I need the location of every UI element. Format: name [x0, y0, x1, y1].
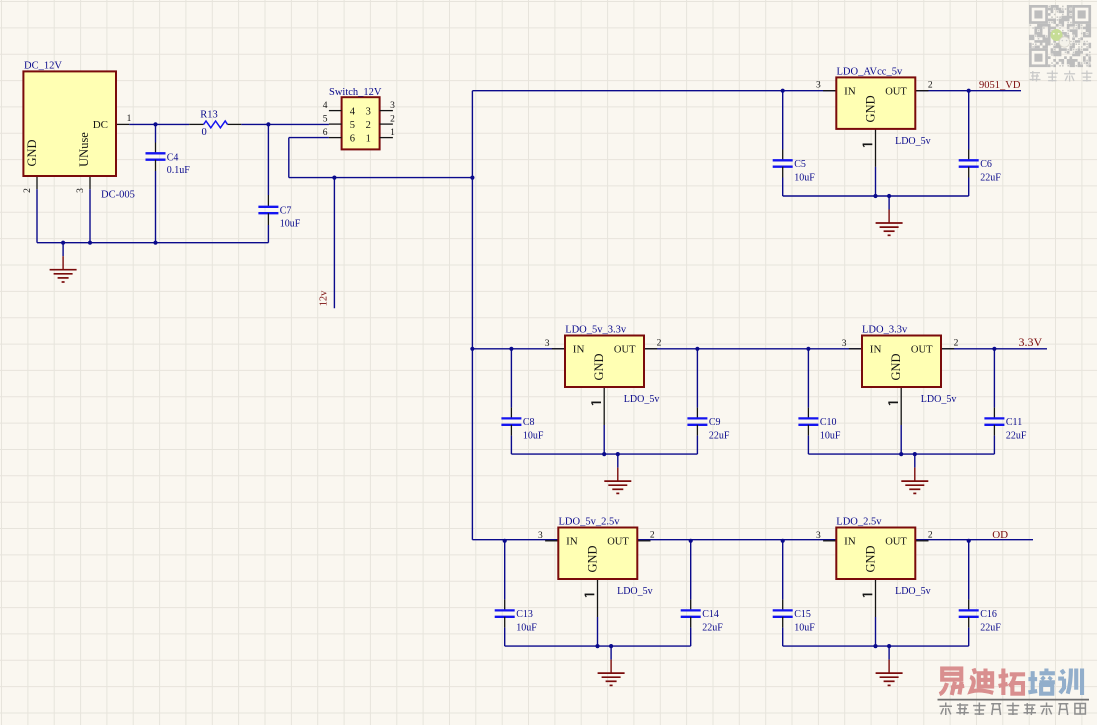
svg-text:C8: C8	[523, 417, 535, 428]
svg-text:10uF: 10uF	[794, 172, 815, 183]
svg-text:OUT: OUT	[614, 345, 636, 356]
svg-text:C15: C15	[794, 609, 811, 620]
svg-text:LDO_5v_3.3v: LDO_5v_3.3v	[565, 325, 627, 336]
svg-text:2: 2	[928, 531, 933, 541]
svg-text:OUT: OUT	[885, 537, 907, 548]
svg-text:C14: C14	[702, 609, 719, 620]
svg-text:C10: C10	[820, 417, 837, 428]
svg-text:Switch_12V: Switch_12V	[329, 87, 382, 98]
svg-text:C16: C16	[980, 609, 997, 620]
svg-text:2: 2	[390, 114, 395, 124]
svg-text:1: 1	[366, 133, 371, 144]
svg-text:LDO_5v: LDO_5v	[624, 394, 660, 405]
svg-text:DC-005: DC-005	[101, 190, 135, 201]
svg-text:1: 1	[127, 114, 132, 124]
svg-text:OUT: OUT	[911, 345, 933, 356]
svg-text:OUT: OUT	[607, 537, 629, 548]
svg-text:6: 6	[350, 133, 355, 144]
svg-text:3: 3	[366, 106, 371, 117]
svg-text:IN: IN	[566, 536, 578, 548]
svg-text:10uF: 10uF	[280, 219, 301, 230]
svg-text:C5: C5	[794, 159, 806, 170]
svg-text:C7: C7	[280, 206, 292, 217]
svg-text:22uF: 22uF	[709, 430, 730, 441]
svg-text:2: 2	[928, 81, 933, 91]
svg-text:OD: OD	[992, 529, 1008, 541]
svg-text:IN: IN	[573, 344, 585, 356]
svg-text:GND: GND	[889, 353, 903, 380]
svg-text:22uF: 22uF	[980, 172, 1001, 183]
svg-text:LDO_5v: LDO_5v	[895, 586, 931, 597]
svg-text:UNuse: UNuse	[77, 132, 91, 167]
svg-text:2: 2	[954, 339, 959, 349]
svg-text:R13: R13	[200, 109, 218, 120]
svg-text:LDO_5v: LDO_5v	[617, 586, 653, 597]
svg-text:C4: C4	[167, 152, 179, 163]
svg-text:10uF: 10uF	[516, 622, 537, 633]
svg-text:4: 4	[323, 101, 328, 111]
svg-text:GND: GND	[863, 95, 877, 122]
svg-text:C13: C13	[516, 609, 533, 620]
svg-text:0: 0	[202, 127, 207, 138]
svg-text:IN: IN	[844, 86, 856, 98]
svg-text:5: 5	[350, 120, 355, 131]
svg-text:5: 5	[323, 114, 328, 124]
svg-text:LDO_2.5v: LDO_2.5v	[836, 517, 882, 528]
svg-text:3.3V: 3.3V	[1019, 335, 1043, 349]
svg-text:10uF: 10uF	[794, 622, 815, 633]
svg-text:3: 3	[842, 339, 847, 349]
svg-text:2: 2	[23, 188, 33, 193]
svg-text:LDO_5v: LDO_5v	[895, 136, 931, 147]
svg-text:10uF: 10uF	[820, 430, 841, 441]
svg-text:2: 2	[650, 531, 655, 541]
svg-text:22uF: 22uF	[702, 622, 723, 633]
svg-text:LDO_5v: LDO_5v	[921, 394, 957, 405]
svg-text:IN: IN	[844, 536, 856, 548]
svg-text:10uF: 10uF	[523, 430, 544, 441]
svg-text:2: 2	[657, 339, 662, 349]
svg-text:3: 3	[76, 188, 86, 193]
svg-text:12v: 12v	[319, 290, 330, 307]
svg-text:6: 6	[323, 128, 328, 138]
svg-text:LDO_AVcc_5v: LDO_AVcc_5v	[837, 67, 903, 78]
svg-text:C11: C11	[1006, 417, 1022, 428]
svg-text:GND: GND	[585, 545, 599, 572]
svg-text:22uF: 22uF	[980, 622, 1001, 633]
svg-text:3: 3	[545, 339, 550, 349]
svg-text:3: 3	[538, 531, 543, 541]
svg-text:3: 3	[816, 531, 821, 541]
svg-text:1: 1	[390, 128, 395, 138]
svg-text:GND: GND	[863, 545, 877, 572]
svg-text:GND: GND	[592, 353, 606, 380]
svg-text:0.1uF: 0.1uF	[167, 165, 191, 176]
svg-text:9051_VD: 9051_VD	[979, 80, 1021, 91]
svg-text:DC_12V: DC_12V	[24, 61, 62, 72]
svg-text:2: 2	[366, 120, 371, 131]
svg-text:IN: IN	[870, 344, 882, 356]
svg-text:4: 4	[350, 106, 356, 117]
svg-text:3: 3	[390, 101, 395, 111]
svg-text:DC: DC	[93, 119, 108, 131]
svg-text:OUT: OUT	[885, 87, 907, 98]
svg-text:GND: GND	[25, 139, 39, 166]
svg-text:LDO_5v_2.5v: LDO_5v_2.5v	[559, 517, 621, 528]
svg-text:22uF: 22uF	[1006, 430, 1027, 441]
svg-text:LDO_3.3v: LDO_3.3v	[862, 325, 908, 336]
svg-text:3: 3	[816, 81, 821, 91]
svg-text:C9: C9	[709, 417, 721, 428]
svg-text:C6: C6	[980, 159, 992, 170]
